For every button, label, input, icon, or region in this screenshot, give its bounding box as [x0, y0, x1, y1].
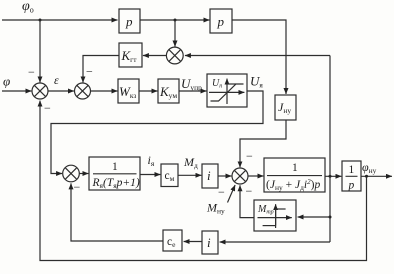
svg-text:i: i: [207, 168, 211, 183]
summer S1: [32, 83, 48, 99]
svg-text:−: −: [74, 180, 81, 194]
wire phi_nu feedback down, left, up into S1 bottom: [40, 101, 367, 261]
summer S3: [166, 47, 183, 64]
wire cm to i1: [178, 174, 201, 176]
wire 1/p to output phi_nu: [361, 175, 392, 177]
block 1/p: [342, 161, 361, 191]
svg-text:Wкз: Wкз: [119, 84, 136, 100]
svg-text:Uя: Uя: [250, 74, 263, 90]
svg-text:Uп: Uп: [212, 78, 222, 90]
wire inertia block to 1/p: [325, 175, 341, 177]
svg-text:Mну: Mну: [206, 201, 225, 216]
svg-text:cе: cе: [167, 236, 176, 249]
wire i2 to ce: [184, 241, 202, 243]
svg-text:−: −: [44, 101, 51, 115]
saturation horizontal axis: [209, 91, 244, 93]
wire omega tap into Mtr block: [298, 216, 330, 218]
wire Jnu down-left-down to summer S5 top: [240, 120, 286, 167]
Mtr vertical axis: [275, 204, 277, 228]
block Jnu: [275, 95, 296, 120]
block inertia: [264, 158, 325, 192]
block saturation amplifier: [207, 74, 247, 107]
Mtr relay lower segment: [263, 225, 276, 227]
wire junction down to summer S1 top: [39, 20, 41, 82]
wire Kgt left and down to summer S2 top: [83, 56, 119, 83]
svg-text:−: −: [246, 149, 253, 163]
svg-text:p: p: [125, 14, 133, 29]
wire Mnu disturbance arrow into S5: [228, 185, 236, 203]
node omega tap: [329, 175, 332, 178]
svg-text:iя: iя: [148, 153, 155, 168]
svg-text:Uупр: Uупр: [181, 76, 202, 92]
wire omega down: [329, 176, 331, 242]
wire S4 to Rya block: [79, 173, 88, 175]
wire omega down to i2: [220, 241, 330, 243]
wire omega feedback into S3 from right: [185, 55, 330, 57]
saturation vertical axis: [226, 79, 228, 104]
Mtr horizontal axis: [258, 217, 292, 219]
summer S2: [75, 83, 91, 99]
block Mtr friction relay: [254, 200, 296, 231]
svg-text:−: −: [28, 65, 35, 79]
svg-text:p: p: [348, 180, 355, 192]
svg-text:Rя(Tяp+1): Rя(Tяp+1): [92, 177, 140, 190]
svg-text:i: i: [207, 235, 211, 250]
wire i1 to S5: [218, 175, 231, 177]
wire Rya to cm: [140, 174, 160, 176]
wire p2 output right and down to Jnu: [232, 20, 286, 94]
svg-text:1: 1: [349, 164, 355, 176]
svg-text:ε: ε: [54, 73, 59, 87]
svg-text:−: −: [218, 185, 225, 199]
node phi_nu tap: [365, 175, 368, 178]
summer S5: [232, 168, 248, 184]
saturation level line: [227, 83, 236, 85]
Mtr relay upper segment: [276, 208, 286, 210]
svg-text:φо: φо: [22, 0, 34, 15]
wire Mtr output left and up into S5 bottom: [240, 185, 254, 217]
node junction on phi0 line: [39, 19, 42, 22]
svg-text:−: −: [246, 184, 253, 198]
block ce: [163, 230, 182, 251]
svg-text:−: −: [86, 65, 93, 79]
wire p1 to p2: [140, 19, 209, 21]
block Rya armature: [89, 157, 140, 190]
wire junction down to summer S3: [174, 20, 176, 47]
wire S2 to Wkz: [91, 90, 118, 92]
summer S4: [63, 165, 80, 182]
wire S1 to S2: [48, 90, 74, 92]
svg-text:φну: φну: [362, 160, 377, 175]
block cm: [161, 164, 178, 187]
block p1: [119, 9, 140, 33]
saturation curve: [211, 84, 244, 101]
svg-text:1: 1: [292, 162, 298, 174]
wire phi input to S1: [2, 90, 31, 92]
block Wkz: [118, 79, 139, 103]
svg-text:p: p: [217, 14, 225, 29]
block i1: [202, 164, 218, 188]
wire S3 to Kgt: [143, 55, 167, 57]
block Kum: [158, 79, 179, 103]
svg-text:Kгт: Kгт: [121, 48, 138, 64]
node omega lower tap: [329, 216, 332, 219]
svg-text:cм: cм: [165, 170, 175, 183]
block p2: [210, 9, 232, 33]
svg-text:Mтр: Mтр: [257, 204, 274, 216]
wire Kum to saturation block: [179, 90, 206, 92]
block i2: [202, 231, 218, 254]
block Kgt: [119, 43, 142, 67]
svg-text:Kум: Kум: [159, 84, 177, 100]
wire Wkz to Kum: [139, 90, 157, 92]
wire omega up to S3 row: [329, 56, 331, 177]
wire phi0 input to block p1: [2, 19, 118, 21]
Mtr relay jump: [275, 209, 277, 226]
svg-text:φ: φ: [3, 74, 10, 89]
svg-text:1: 1: [112, 161, 118, 173]
svg-text:Mд: Mд: [183, 155, 198, 170]
svg-text:Jну: Jну: [278, 100, 291, 115]
node junction between p1 and p2: [174, 19, 177, 22]
wire ce left and up into S4 bottom: [71, 183, 163, 241]
svg-text:(Jну + Jдi2)p: (Jну + Jдi2)p: [266, 178, 320, 192]
wire S5 to big inertia block: [248, 175, 263, 177]
wire Ua output right, down, left, down into summer S4: [51, 91, 263, 174]
